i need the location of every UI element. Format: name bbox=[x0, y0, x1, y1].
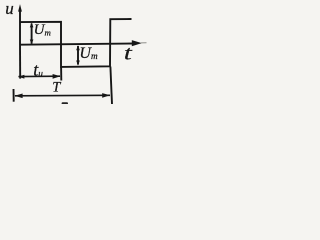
svg-text:T: T bbox=[52, 80, 61, 96]
svg-text:t: t bbox=[124, 42, 133, 64]
svg-text:u: u bbox=[5, 0, 14, 18]
